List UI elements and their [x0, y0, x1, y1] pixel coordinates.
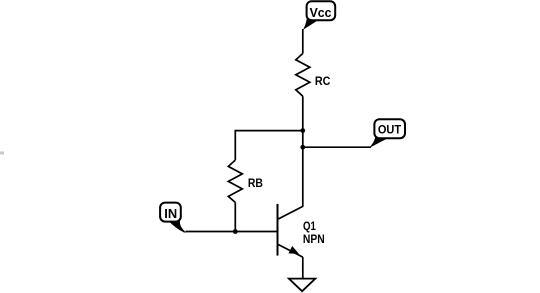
- svg-text:Q1: Q1: [303, 219, 316, 233]
- svg-text:Vcc: Vcc: [310, 5, 332, 20]
- transistor Q1 emitter arrow: [289, 246, 300, 254]
- transistor Q1 collector diagonal: [278, 206, 303, 219]
- transistor Q1 base bar: [277, 204, 279, 256]
- node OUT junction: [300, 145, 305, 150]
- node Vcc flag: [303, 1, 335, 30]
- ground: [289, 279, 315, 292]
- node junction base: [233, 229, 238, 234]
- node junction feedback: [300, 128, 305, 133]
- svg-text:OUT: OUT: [378, 122, 402, 136]
- resistor RB: [228, 160, 242, 202]
- svg-text:NPN: NPN: [303, 232, 325, 246]
- node IN flag: [160, 203, 186, 233]
- wire feedback horizontal: [235, 131, 302, 161]
- wire to OUT: [303, 146, 371, 148]
- wire RC to collector rail: [302, 96, 304, 207]
- wire Vcc to RC: [302, 29, 304, 54]
- svg-text:RB: RB: [248, 176, 263, 190]
- svg-text:RC: RC: [315, 74, 331, 88]
- transistor Q1 emitter diagonal: [278, 244, 303, 257]
- wire RB to base wire: [234, 202, 236, 231]
- left edge artifact: [0, 152, 4, 155]
- wire emitter to ground: [302, 257, 304, 279]
- node OUT flag: [369, 119, 405, 148]
- resistor RC: [296, 54, 310, 97]
- svg-text:IN: IN: [164, 206, 177, 221]
- wire IN to base: [186, 231, 278, 233]
